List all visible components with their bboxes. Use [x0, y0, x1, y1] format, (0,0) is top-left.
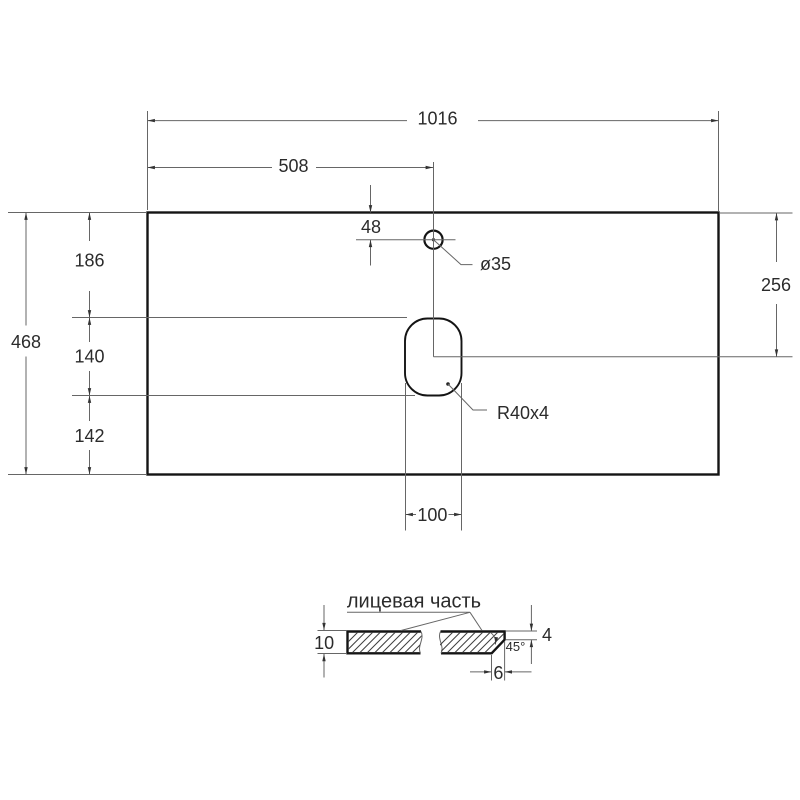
- svg-text:508: 508: [278, 156, 308, 176]
- svg-text:10: 10: [314, 633, 334, 653]
- svg-text:142: 142: [74, 426, 104, 446]
- svg-text:R40x4: R40x4: [497, 403, 549, 423]
- svg-text:4: 4: [542, 625, 552, 645]
- svg-text:256: 256: [761, 275, 791, 295]
- svg-text:6: 6: [493, 663, 503, 683]
- svg-text:ø35: ø35: [480, 254, 511, 274]
- svg-text:лицевая часть: лицевая часть: [347, 590, 481, 612]
- svg-text:140: 140: [74, 346, 104, 366]
- svg-text:468: 468: [11, 332, 41, 352]
- svg-text:186: 186: [74, 251, 104, 271]
- svg-text:45°: 45°: [506, 639, 526, 654]
- svg-text:1016: 1016: [417, 109, 457, 129]
- svg-text:100: 100: [417, 505, 447, 525]
- svg-text:48: 48: [361, 217, 381, 237]
